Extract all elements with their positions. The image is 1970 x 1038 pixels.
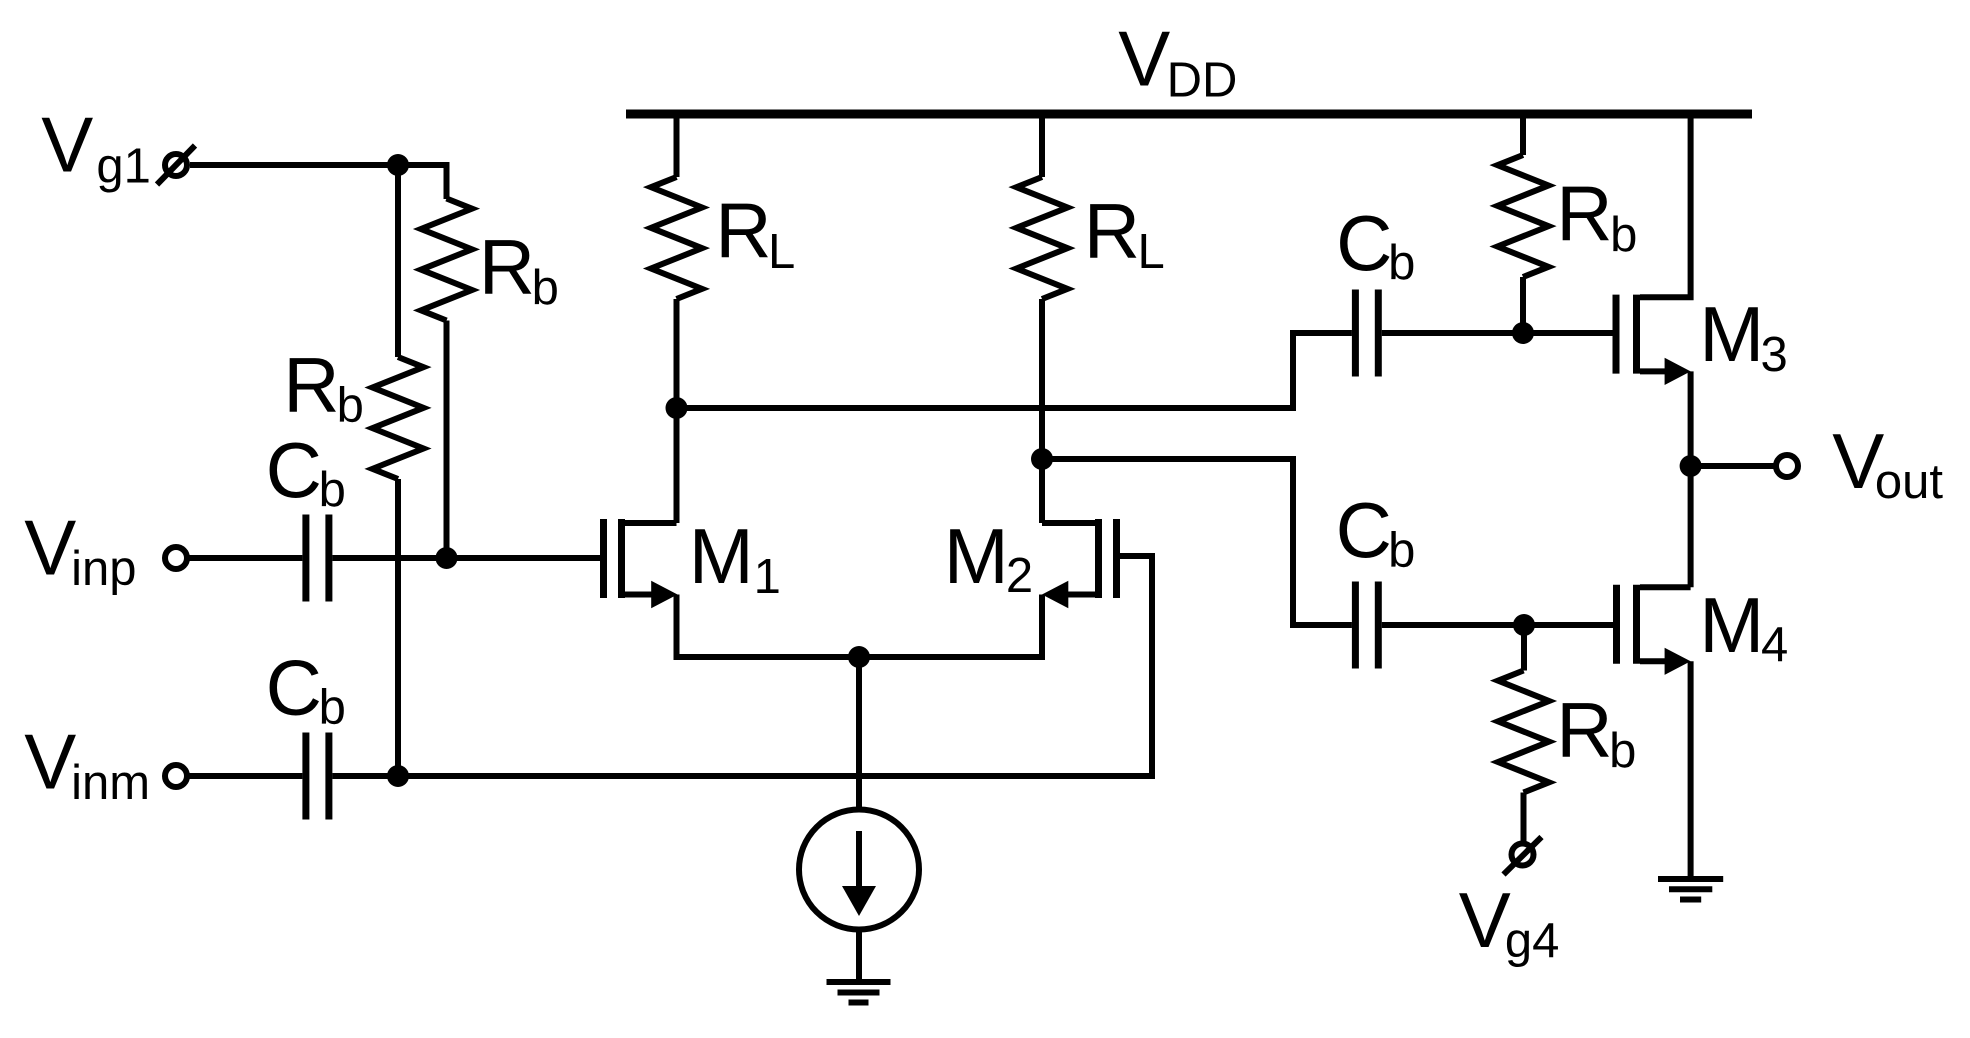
wire M2 source to tail node [859,595,1042,658]
svg-text:C: C [266,644,322,732]
svg-text:V: V [24,717,76,805]
svg-text:R: R [283,341,339,429]
svg-text:out: out [1875,455,1944,509]
resistor RL (M1 load) [651,114,702,523]
capacitor Cb (M1 drain to M3 gate) [1355,290,1378,377]
label M3 [1699,290,1787,382]
terminal Vg4 [1504,837,1542,875]
svg-text:V: V [1118,15,1170,103]
transistor M4 [1617,585,1691,675]
svg-text:inm: inm [71,756,150,810]
label Vg1 [41,101,151,194]
wire M1 drain to upper Cb [677,333,1352,408]
svg-text:b: b [532,261,559,315]
wire M1 source to tail node [677,595,860,658]
wire M4 source to ground [1688,661,1694,879]
svg-text:b: b [1388,524,1415,578]
svg-text:V: V [41,101,93,189]
label Vinm [24,717,150,810]
svg-text:L: L [768,225,795,279]
junction node M4 gate [1513,614,1535,636]
wire lower Cb to M4 gate [1382,622,1613,628]
svg-text:V: V [1459,876,1511,964]
ground (tail current source) [827,982,891,1003]
label Cb (Vinm) [266,644,346,735]
label M1 [689,512,781,604]
transistor M1 [604,519,678,608]
label VDD [1118,15,1237,108]
junction node M1 gate [436,547,458,569]
svg-text:b: b [319,681,346,735]
label RL (right) [1084,187,1165,279]
svg-text:M: M [689,512,754,600]
svg-text:1: 1 [754,550,781,604]
capacitor Cb (M2 drain to M4 gate) [1355,582,1378,669]
svg-text:C: C [1336,199,1392,287]
wire Vg1 terminal to Rb1 [190,165,447,199]
wire current source to ground [856,930,862,983]
svg-text:R: R [1084,187,1140,275]
wire Vinp terminal to Cb [187,555,302,561]
svg-text:g4: g4 [1505,914,1560,968]
svg-text:inp: inp [71,542,136,596]
svg-text:V: V [24,504,76,592]
terminal Vg1 [157,146,195,185]
junction node Vout [1680,455,1702,477]
resistor RL (M2 load) [1017,114,1068,523]
svg-text:R: R [1556,170,1612,258]
label Cb (Vinp) [266,426,346,517]
resistor Rb (M4 gate bias) [1498,625,1549,844]
label M4 [1699,581,1788,672]
capacitor Cb (Vinm coupling) [306,733,329,820]
label M2 [944,512,1033,603]
svg-text:L: L [1138,225,1165,279]
label Vout [1832,417,1943,509]
power rail VDD [626,110,1752,119]
wire Vout node to terminal [1691,463,1776,469]
label Cb (upper right) [1336,199,1415,290]
label RL (left) [715,186,795,279]
capacitor Cb (Vinp coupling) [306,515,329,602]
svg-text:M: M [944,512,1009,600]
svg-text:M: M [1699,290,1764,378]
svg-text:2: 2 [1006,549,1033,603]
resistor Rb (M3 gate bias) [1498,114,1549,333]
svg-text:3: 3 [1761,328,1788,382]
svg-text:b: b [1609,724,1636,778]
svg-text:C: C [266,426,322,514]
junction node tail [848,646,870,668]
junction node M2 drain [1031,448,1053,470]
svg-text:b: b [1388,236,1415,290]
terminal Vinp [165,547,187,569]
wire Cb to M1 gate [332,555,603,561]
junction node M2 gate [387,765,409,787]
transistor M3 [1616,114,1691,385]
label Cb (lower right) [1336,486,1416,578]
wire M3 drain to M4 drain [1688,371,1694,587]
wire Vinm terminal to Cb [187,773,302,779]
junction node Vg1 bias [387,154,409,176]
svg-text:R: R [715,186,771,274]
terminal Vinm [165,765,187,787]
current source I_tail [799,810,919,930]
label Rb (mid left) [283,341,364,433]
label Vinp [24,504,136,596]
ground (M4 source) [1658,879,1723,900]
label Rb (upper left) [479,223,559,315]
svg-text:R: R [1556,686,1612,774]
svg-text:4: 4 [1761,618,1788,672]
resistor Rb (Vg1 to M1 gate node) [421,199,472,559]
svg-text:b: b [319,463,346,517]
svg-text:C: C [1336,486,1392,574]
svg-text:b: b [1610,208,1637,262]
wire upper Cb to M3 gate [1382,330,1613,336]
svg-text:M: M [1699,581,1764,669]
wire tail node to current source [856,657,862,810]
terminal Vout [1776,455,1798,477]
svg-text:b: b [337,378,364,432]
transistor M2 [1042,519,1117,608]
resistor Rb (Vg1 to M2 gate node) [373,165,424,776]
junction node M1 drain [666,397,688,419]
svg-text:DD: DD [1167,53,1238,107]
label Vg4 [1459,876,1560,968]
svg-text:R: R [479,223,535,311]
wire M2 drain to lower Cb [1042,459,1352,625]
junction node M3 gate [1512,322,1534,344]
label Rb (upper right) [1556,170,1637,262]
label Rb (lower right) [1556,686,1636,778]
wire Cb to M2 gate [332,556,1152,776]
svg-text:g1: g1 [96,140,151,194]
